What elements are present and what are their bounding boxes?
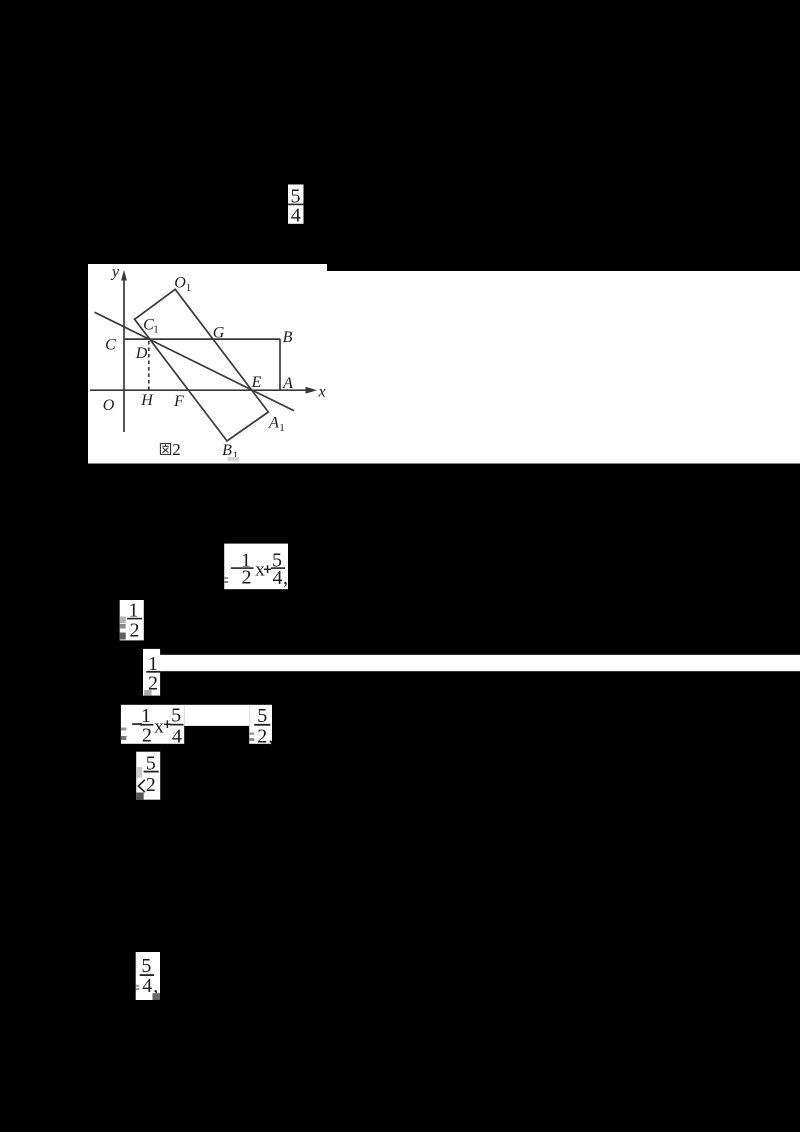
svg-text:O: O: [103, 397, 115, 414]
svg-text:G: G: [213, 325, 225, 342]
svg-text:4: 4: [291, 205, 301, 227]
svg-text:5: 5: [141, 955, 151, 977]
x-axis arrowhead: [306, 387, 318, 394]
svg-text:1: 1: [279, 422, 285, 434]
svg-text:C: C: [105, 337, 116, 354]
rectangle OABC top edge CB: [124, 338, 280, 340]
figure image white box: [88, 264, 327, 464]
svg-text:2: 2: [242, 567, 252, 589]
blank white image right of figure: [327, 271, 800, 464]
formula patch = -1/2 x + 5/4 (line 4 left): [121, 705, 249, 748]
grey equals fragment: [224, 577, 228, 579]
formula patch 5/2 , (line 4 right): [249, 705, 273, 748]
svg-text:B: B: [283, 329, 293, 346]
plus sign: [264, 569, 271, 571]
svg-text:E: E: [251, 374, 262, 391]
svg-text:B: B: [222, 442, 232, 459]
svg-text:D: D: [135, 345, 148, 362]
minus sign: [231, 567, 240, 569]
line through D and E: [95, 312, 295, 411]
svg-text:x: x: [154, 717, 164, 738]
formula patch 1/2 with long white strip (line 3): [143, 649, 800, 696]
svg-text:4: 4: [172, 726, 182, 748]
svg-text:1: 1: [186, 282, 192, 294]
x-axis: [90, 389, 308, 391]
svg-text:5: 5: [171, 705, 181, 727]
svg-text:5: 5: [257, 705, 267, 727]
svg-text:2: 2: [146, 774, 156, 796]
rotated rectangle O1C1B1A1: [135, 289, 269, 441]
grey smudge under B1: [228, 457, 240, 462]
svg-text:1: 1: [153, 324, 159, 336]
svg-text:y: y: [110, 264, 120, 281]
caption 图2: [160, 444, 170, 455]
svg-text:F: F: [173, 393, 184, 410]
y-axis: [123, 278, 125, 432]
svg-text:H: H: [140, 392, 154, 409]
formula patch 5/4 (top): [288, 185, 304, 227]
figure content: [90, 278, 308, 441]
svg-text:2: 2: [172, 440, 181, 459]
svg-text:x: x: [317, 384, 325, 401]
y-axis arrowhead: [121, 270, 127, 281]
formula patch < 5/2 (line 5): [136, 752, 160, 800]
svg-text:,: ,: [269, 726, 274, 748]
svg-text:A: A: [268, 414, 279, 431]
svg-text:A: A: [282, 375, 293, 392]
dashed segment DH: [148, 341, 150, 390]
formula patch = 1/2 (line 2): [120, 600, 144, 642]
svg-text:O: O: [174, 275, 186, 292]
rectangle OABC right edge BA: [279, 339, 281, 390]
svg-text:4: 4: [142, 975, 152, 997]
svg-text:x: x: [255, 560, 265, 581]
svg-text:2: 2: [142, 725, 152, 747]
less-than sign: [138, 780, 144, 792]
svg-text:2: 2: [257, 726, 267, 748]
svg-text:,: ,: [283, 567, 288, 589]
svg-text:4: 4: [273, 567, 283, 589]
formula patch = 5/4 , (bottom): [136, 952, 160, 1000]
svg-text:2: 2: [130, 620, 140, 642]
formula patch = -1/2 x + 5/4 , (line 1): [224, 544, 288, 590]
